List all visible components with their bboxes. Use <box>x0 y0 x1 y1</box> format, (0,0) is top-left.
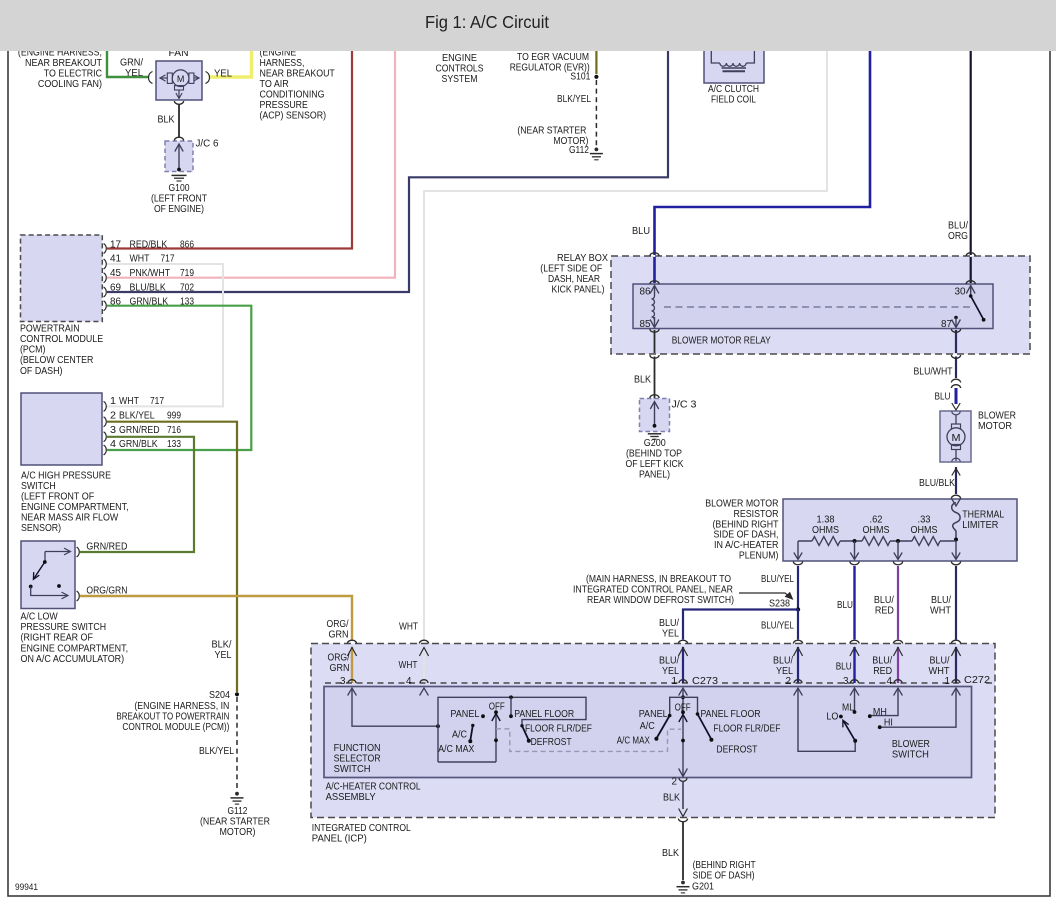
svg-text:(NEAR STARTER: (NEAR STARTER <box>200 817 270 828</box>
svg-text:ORG/GRN: ORG/GRN <box>86 586 127 597</box>
svg-text:TO ELECTRIC: TO ELECTRIC <box>44 69 102 80</box>
svg-text:Fig 1: A/C Circuit: Fig 1: A/C Circuit <box>425 12 549 32</box>
relay coil pin 86 <box>650 253 659 256</box>
svg-text:G100: G100 <box>169 183 190 194</box>
wire BLK/YEL 999 pin 2 to S204 <box>107 422 237 692</box>
svg-text:RED/BLK: RED/BLK <box>130 239 168 250</box>
svg-text:BLU/: BLU/ <box>874 595 894 606</box>
svg-text:85: 85 <box>640 319 651 330</box>
svg-text:S101: S101 <box>570 72 590 83</box>
svg-text:SIDE OF DASH,: SIDE OF DASH, <box>714 530 779 541</box>
svg-text:BLU/: BLU/ <box>659 656 679 667</box>
svg-text:GRN/: GRN/ <box>120 58 143 69</box>
A/C clutch field coil symbol <box>711 51 720 63</box>
svg-text:(RIGHT REAR OF: (RIGHT REAR OF <box>21 633 93 644</box>
relay box dashed boundary <box>611 256 1030 354</box>
svg-text:BLU: BLU <box>935 392 951 403</box>
svg-text:OFF: OFF <box>675 703 691 714</box>
ground G112 lower <box>235 792 239 796</box>
svg-text:ON A/C ACCUMULATOR): ON A/C ACCUMULATOR) <box>21 654 125 665</box>
svg-text:PANEL (ICP): PANEL (ICP) <box>312 834 367 845</box>
node resistor taps <box>853 539 857 543</box>
resistor box entry thermal limiter <box>951 495 960 498</box>
svg-text:SENSOR): SENSOR) <box>21 523 61 534</box>
relay coil <box>652 296 655 320</box>
svg-text:(LEFT FRONT OF: (LEFT FRONT OF <box>21 492 94 503</box>
svg-text:NEAR BREAKOUT: NEAR BREAKOUT <box>25 58 102 69</box>
left wafer bottom rail <box>438 761 496 763</box>
node J/C6 ground dot <box>177 168 181 172</box>
svg-text:YEL: YEL <box>214 69 232 80</box>
svg-text:RESISTOR: RESISTOR <box>734 509 779 520</box>
svg-text:87: 87 <box>941 319 952 330</box>
wire WHT to ICP pin 4 <box>424 46 827 640</box>
svg-text:.62: .62 <box>870 515 883 526</box>
svg-text:PANEL FLOOR: PANEL FLOOR <box>701 709 761 720</box>
wire PNK/WHT 719 PCM pin 45 <box>107 46 395 278</box>
fan motor symbol <box>160 77 168 79</box>
svg-text:SWITCH: SWITCH <box>892 750 929 761</box>
svg-text:FIELD COIL: FIELD COIL <box>711 95 756 106</box>
svg-text:WHT: WHT <box>399 622 418 633</box>
svg-text:CONTROLS: CONTROLS <box>436 64 484 75</box>
svg-text:OF DASH): OF DASH) <box>20 366 63 377</box>
wire BLK relay 85 to J/C 3 <box>654 357 656 399</box>
svg-text:PANEL: PANEL <box>639 709 668 720</box>
svg-text:69: 69 <box>110 282 121 293</box>
svg-text:BLOWER MOTOR: BLOWER MOTOR <box>705 499 778 510</box>
svg-text:SWITCH: SWITCH <box>21 481 56 492</box>
svg-text:COOLING FAN): COOLING FAN) <box>38 79 102 90</box>
ICP integrated control panel dashed boundary <box>311 644 995 818</box>
node left wafer junction <box>436 724 440 728</box>
svg-text:1: 1 <box>945 676 951 687</box>
connector C273 dashed line <box>325 682 688 684</box>
fan box <box>156 61 202 100</box>
svg-text:CONTROL MODULE (PCM)): CONTROL MODULE (PCM)) <box>122 722 229 733</box>
svg-text:HARNESS,: HARNESS, <box>260 58 305 69</box>
svg-text:A/C: A/C <box>452 730 467 741</box>
svg-text:45: 45 <box>110 268 121 279</box>
ground G112 near starter motor <box>595 148 599 152</box>
A/C high pressure switch box <box>21 393 102 465</box>
svg-text:MOTOR: MOTOR <box>978 421 1012 432</box>
right wafer A/C MAX lever <box>668 714 672 718</box>
wire BLK/YEL at S101 <box>595 46 597 74</box>
svg-text:PANEL): PANEL) <box>639 470 670 481</box>
blower motor relay inner box <box>633 284 993 329</box>
svg-text:A/C CLUTCH: A/C CLUTCH <box>708 84 759 95</box>
svg-text:BLU: BLU <box>836 662 852 673</box>
left wafer A/C lever <box>471 724 474 727</box>
svg-text:OFF: OFF <box>489 702 505 713</box>
wire WHT 717 PCM pin 41 to high pressure switch pin 1 <box>107 264 223 406</box>
svg-text:G200: G200 <box>644 438 666 449</box>
wire dashed BLK/YEL S101 to G112 <box>595 80 597 146</box>
contact PANEL left wafer <box>481 714 485 718</box>
node thermal limiter junction <box>954 538 958 542</box>
svg-text:PRESSURE SWITCH: PRESSURE SWITCH <box>21 622 107 633</box>
svg-text:CONTROL MODULE: CONTROL MODULE <box>20 334 103 345</box>
svg-text:SELECTOR: SELECTOR <box>334 754 381 765</box>
node right wafer junction <box>681 695 685 699</box>
svg-text:A/C LOW: A/C LOW <box>21 612 59 623</box>
svg-text:WHT: WHT <box>930 606 951 617</box>
svg-text:BLK/YEL: BLK/YEL <box>557 94 591 105</box>
svg-text:4: 4 <box>887 676 893 687</box>
svg-text:TO AIR: TO AIR <box>260 79 289 90</box>
svg-text:YEL: YEL <box>662 629 679 640</box>
svg-text:DASH, NEAR: DASH, NEAR <box>548 274 600 285</box>
A/C high pressure switch pin connectors <box>104 401 107 411</box>
node S101 <box>594 75 598 79</box>
svg-text:(MAIN HARNESS, IN BREAKOUT TO: (MAIN HARNESS, IN BREAKOUT TO <box>586 574 731 585</box>
svg-text:(LEFT SIDE OF: (LEFT SIDE OF <box>540 264 602 275</box>
wire BLU/WHT resistor to ICP pin 1 C272 <box>955 566 957 640</box>
wire BLU to relay pin 86 <box>655 46 871 255</box>
svg-text:133: 133 <box>180 297 194 308</box>
svg-text:(BEHIND RIGHT: (BEHIND RIGHT <box>713 519 779 530</box>
svg-text:WHT: WHT <box>399 660 418 671</box>
ground G201 <box>681 881 685 885</box>
thermal limiter symbol <box>952 503 960 540</box>
relay switch blade <box>971 296 984 319</box>
svg-text:BLK/: BLK/ <box>212 640 232 651</box>
A/C low pressure switch internals <box>45 551 69 553</box>
wire RED/BLK 866 PCM pin 17 <box>107 46 352 249</box>
svg-text:DEFROST: DEFROST <box>716 745 757 756</box>
svg-text:BLU/: BLU/ <box>948 221 968 232</box>
svg-text:A/C-HEATER CONTROL: A/C-HEATER CONTROL <box>326 782 421 793</box>
svg-text:17: 17 <box>110 239 121 250</box>
svg-text:BLU/: BLU/ <box>931 595 951 606</box>
contact LO <box>839 715 843 719</box>
svg-text:SYSTEM: SYSTEM <box>442 74 478 85</box>
svg-text:1.38: 1.38 <box>817 515 835 526</box>
svg-text:(ACP) SENSOR): (ACP) SENSOR) <box>260 111 327 122</box>
blower motor box <box>940 411 971 462</box>
svg-text:BLU/: BLU/ <box>773 656 793 667</box>
inline connector arcs BLU/WHT-BLU <box>951 379 960 382</box>
wire dashed BLK/YEL S204 to G112 <box>236 697 238 791</box>
svg-text:G112: G112 <box>569 145 589 156</box>
node panel-floor tap <box>509 695 513 699</box>
svg-text:NEAR MASS AIR FLOW: NEAR MASS AIR FLOW <box>21 513 119 524</box>
svg-text:NEAR BREAKOUT: NEAR BREAKOUT <box>260 69 335 80</box>
svg-text:999: 999 <box>167 410 181 421</box>
svg-text:ML: ML <box>842 703 854 714</box>
svg-text:FUNCTION: FUNCTION <box>334 743 381 754</box>
svg-text:GRN/RED: GRN/RED <box>86 542 127 553</box>
svg-text:BLU/BLK: BLU/BLK <box>130 282 166 293</box>
blower motor entry <box>952 403 960 410</box>
svg-text:A/C MAX: A/C MAX <box>438 744 474 755</box>
svg-text:BLK/YEL: BLK/YEL <box>199 746 234 757</box>
wire ORG/GRN low pressure switch to ICP pin 3 <box>80 596 352 640</box>
svg-text:A/C MAX: A/C MAX <box>617 736 650 747</box>
inner assembly pin arrows <box>348 688 357 696</box>
J/C 3 internal wire <box>654 402 656 426</box>
svg-text:702: 702 <box>180 282 194 293</box>
right wafer defrost lever <box>696 712 700 716</box>
resistor drop pins <box>797 541 799 559</box>
wire BLK fan to J/C 6 <box>174 101 183 104</box>
svg-text:HI: HI <box>884 718 893 729</box>
mechanical linkage dashed <box>496 729 681 752</box>
ground G100 bars <box>172 174 187 176</box>
title bar <box>0 0 1056 51</box>
svg-text:BLK: BLK <box>634 375 651 386</box>
wire BLU/ORG inside relay box to pin 30 <box>970 257 972 283</box>
wire BLU/YEL S238 branch to ICP pin 1 C273 <box>683 610 798 640</box>
J/C 3 entry cup <box>650 395 659 398</box>
svg-text:(NEAR STARTER: (NEAR STARTER <box>517 126 586 137</box>
junction box J/C 3 <box>640 399 670 432</box>
contact OFF right wafer <box>681 710 685 714</box>
wire BLU resistor to ICP pin 3 <box>853 566 855 640</box>
svg-text:C273: C273 <box>692 676 718 687</box>
harness callout arrow to S238 <box>739 593 792 599</box>
svg-text:(ENGINE HARNESS, IN: (ENGINE HARNESS, IN <box>134 701 229 712</box>
left wafer defrost lever <box>520 724 523 727</box>
svg-text:A/C HIGH PRESSURE: A/C HIGH PRESSURE <box>21 471 111 482</box>
svg-text:ENGINE: ENGINE <box>442 53 477 64</box>
svg-text:DEFROST: DEFROST <box>531 737 572 748</box>
svg-text:LO: LO <box>826 712 838 723</box>
ICP top band entry arrows <box>347 648 356 657</box>
wire BLU/YEL S238 down to ICP pin 2 <box>797 610 799 640</box>
A/C low pressure switch pin connectors <box>77 547 80 557</box>
svg-text:BLU/WHT: BLU/WHT <box>914 367 953 378</box>
wire BLU/WHT pin 87 inside relay box <box>955 330 957 353</box>
blower switch pin 2 path <box>798 688 855 751</box>
svg-text:SIDE OF DASH): SIDE OF DASH) <box>693 871 755 882</box>
svg-text:BLU/: BLU/ <box>872 656 892 667</box>
svg-text:3: 3 <box>110 425 116 436</box>
svg-text:866: 866 <box>180 239 194 250</box>
wire BLU/RED resistor to ICP pin 4 <box>897 566 899 640</box>
inner assembly pin cups <box>348 680 356 683</box>
function selector right wafer wiring <box>682 688 684 775</box>
svg-text:YEL: YEL <box>125 68 143 79</box>
svg-text:CONDITIONING: CONDITIONING <box>260 90 325 101</box>
svg-text:BLU/: BLU/ <box>930 656 950 667</box>
svg-text:OHMS: OHMS <box>911 525 938 536</box>
fan inline connector left <box>149 72 153 84</box>
svg-text:BLU/YEL: BLU/YEL <box>761 621 794 632</box>
svg-text:719: 719 <box>180 268 194 279</box>
svg-text:86: 86 <box>110 297 121 308</box>
ICP top band wires <box>351 647 353 683</box>
svg-text:J/C 6: J/C 6 <box>196 139 219 150</box>
svg-text:THERMAL: THERMAL <box>962 510 1004 521</box>
resistor network <box>798 540 812 542</box>
relay coil pin 85 <box>654 317 656 327</box>
svg-text:(BEHIND TOP: (BEHIND TOP <box>626 449 682 460</box>
svg-text:3: 3 <box>843 676 849 687</box>
svg-text:1: 1 <box>110 396 116 407</box>
svg-text:BLOWER: BLOWER <box>978 411 1016 422</box>
contact MH pin 4 <box>871 688 898 716</box>
wire BLK pin 85 inside relay box <box>654 330 656 353</box>
svg-text:ORG/: ORG/ <box>327 619 349 630</box>
svg-text:M: M <box>952 432 961 444</box>
wire BLU/BLK motor to resistor box <box>955 467 957 494</box>
svg-text:(LEFT FRONT: (LEFT FRONT <box>151 194 207 205</box>
ICP boundary entry cups <box>347 640 356 643</box>
svg-text:ORG/: ORG/ <box>328 653 350 664</box>
svg-text:GRN/BLK: GRN/BLK <box>130 297 169 308</box>
svg-text:2: 2 <box>110 410 116 421</box>
svg-text:OF LEFT KICK: OF LEFT KICK <box>626 459 684 470</box>
svg-text:REAR WINDOW DEFROST SWITCH): REAR WINDOW DEFROST SWITCH) <box>587 595 734 606</box>
svg-text:BLU: BLU <box>837 600 853 611</box>
svg-text:99941: 99941 <box>15 882 38 893</box>
junction box J/C 6 <box>165 141 193 172</box>
wire BLU inside relay box to pin 86 <box>653 257 656 283</box>
svg-text:BLK/YEL: BLK/YEL <box>119 410 155 421</box>
PCM box dashed <box>21 235 103 322</box>
svg-text:4: 4 <box>406 676 412 687</box>
svg-text:ENGINE COMPARTMENT,: ENGINE COMPARTMENT, <box>21 502 129 513</box>
svg-text:GRN: GRN <box>329 630 349 641</box>
svg-text:41: 41 <box>110 254 121 265</box>
svg-text:717: 717 <box>150 396 164 407</box>
svg-text:S204: S204 <box>209 690 230 701</box>
svg-text:ORG: ORG <box>948 231 968 242</box>
svg-text:TO EGR VACUUM: TO EGR VACUUM <box>517 52 589 63</box>
svg-text:LIMITER: LIMITER <box>962 520 998 531</box>
svg-text:BLU/YEL: BLU/YEL <box>761 574 794 585</box>
svg-text:4: 4 <box>110 439 116 450</box>
wire BLU/WHT relay 87 to connector <box>955 357 957 379</box>
relay switch pin 87 <box>954 316 958 320</box>
svg-text:716: 716 <box>167 425 181 436</box>
svg-text:M: M <box>177 74 185 84</box>
svg-text:OHMS: OHMS <box>812 525 839 536</box>
svg-text:BLU/BLK: BLU/BLK <box>919 478 955 489</box>
wire GRN/BLK 133 PCM pin 86 to high pressure switch pin 4 <box>107 306 251 450</box>
svg-text:FLOOR FLR/DEF: FLOOR FLR/DEF <box>713 724 780 735</box>
wire BLU/ORG to relay pin 30 <box>970 46 972 255</box>
ground G200 bars <box>648 433 661 435</box>
contact ML pin 3 <box>854 688 856 712</box>
svg-text:OF ENGINE): OF ENGINE) <box>154 204 204 215</box>
A/C low pressure switch box <box>21 541 75 609</box>
contact HI pin 1 <box>881 688 956 727</box>
svg-text:PNK/WHT: PNK/WHT <box>130 268 171 279</box>
svg-text:BLK: BLK <box>663 793 680 804</box>
svg-text:133: 133 <box>167 439 181 450</box>
svg-text:INTEGRATED CONTROL: INTEGRATED CONTROL <box>312 823 411 834</box>
left wafer wiper <box>495 715 497 763</box>
function selector left wafer wiring <box>352 688 438 726</box>
svg-text:G112: G112 <box>228 806 248 817</box>
svg-text:BLU/: BLU/ <box>659 618 679 629</box>
svg-text:2: 2 <box>672 777 678 788</box>
svg-text:PANEL FLOOR: PANEL FLOOR <box>514 709 574 720</box>
svg-text:BLK: BLK <box>662 848 679 859</box>
svg-text:RED: RED <box>875 606 894 617</box>
svg-text:BLU: BLU <box>632 226 650 237</box>
relay internal dashed link <box>664 306 971 308</box>
wire GRN/YEL to fan <box>107 46 149 77</box>
svg-text:BREAKOUT TO POWERTRAIN: BREAKOUT TO POWERTRAIN <box>116 712 229 723</box>
wire BLU to blower motor <box>955 388 958 404</box>
svg-text:BLOWER MOTOR RELAY: BLOWER MOTOR RELAY <box>672 336 771 347</box>
svg-text:YEL: YEL <box>215 650 232 661</box>
svg-text:MOTOR): MOTOR) <box>220 827 256 838</box>
svg-text:BLOWER: BLOWER <box>892 739 930 750</box>
svg-text:ENGINE COMPARTMENT,: ENGINE COMPARTMENT, <box>21 643 129 654</box>
svg-text:A/C: A/C <box>640 721 655 732</box>
svg-text:BLK: BLK <box>158 115 175 126</box>
relay switch pin 30 <box>966 253 975 256</box>
svg-text:POWERTRAIN: POWERTRAIN <box>20 323 80 334</box>
svg-text:GRN/BLK: GRN/BLK <box>119 439 158 450</box>
node S204 <box>235 692 239 696</box>
svg-text:KICK PANEL): KICK PANEL) <box>552 285 605 296</box>
svg-text:PRESSURE: PRESSURE <box>260 100 309 111</box>
svg-text:PANEL: PANEL <box>450 709 479 720</box>
svg-text:(BEHIND RIGHT: (BEHIND RIGHT <box>693 860 756 871</box>
svg-text:RELAY BOX: RELAY BOX <box>557 253 608 264</box>
A/C-heater control assembly inner box <box>324 687 972 778</box>
svg-text:IN A/C-HEATER: IN A/C-HEATER <box>714 540 779 551</box>
A/C clutch field coil box <box>704 48 764 83</box>
fan inline connector right <box>206 72 210 84</box>
wire BLU/YEL resistor to S238 <box>797 566 799 610</box>
svg-text:717: 717 <box>161 254 175 265</box>
wire GRN/RED 716 pin 3 to low pressure switch <box>80 437 194 552</box>
svg-text:GRN: GRN <box>330 663 350 674</box>
svg-text:.33: .33 <box>918 515 931 526</box>
blower motor symbol <box>955 415 957 424</box>
svg-text:SWITCH: SWITCH <box>334 764 371 775</box>
svg-text:1: 1 <box>672 676 678 687</box>
svg-text:OHMS: OHMS <box>863 525 890 536</box>
blower switch lever <box>853 739 857 743</box>
svg-text:3: 3 <box>340 676 346 687</box>
svg-text:PLENUM): PLENUM) <box>739 551 779 562</box>
wire BLU/BLK 702 PCM pin 69 <box>107 46 668 292</box>
svg-text:WHT: WHT <box>119 396 139 407</box>
svg-text:MH: MH <box>873 707 887 718</box>
svg-text:ASSEMBLY: ASSEMBLY <box>326 792 376 803</box>
svg-text:GRN/RED: GRN/RED <box>119 425 160 436</box>
node S238 <box>796 607 800 611</box>
svg-text:86: 86 <box>640 287 651 298</box>
svg-text:C272: C272 <box>964 675 990 686</box>
svg-text:WHT: WHT <box>130 254 150 265</box>
wire YEL from fan <box>210 46 252 77</box>
svg-text:J/C 3: J/C 3 <box>672 400 697 411</box>
PCM pin connectors <box>104 244 107 254</box>
svg-text:(BELOW CENTER: (BELOW CENTER <box>20 355 93 366</box>
svg-text:(PCM): (PCM) <box>20 345 45 356</box>
svg-text:FLOOR FLR/DEF: FLOOR FLR/DEF <box>525 724 592 735</box>
contact OFF left wafer <box>494 710 498 714</box>
wire BLK ICP pin 2 to G201 <box>679 769 688 777</box>
svg-text:30: 30 <box>955 287 966 298</box>
svg-text:S238: S238 <box>769 599 790 610</box>
blower motor resistor box <box>783 499 1017 561</box>
connector C272 dashed line <box>722 682 961 684</box>
svg-text:G201: G201 <box>692 882 714 893</box>
svg-text:2: 2 <box>786 676 792 687</box>
svg-text:INTEGRATED CONTROL PANEL, NEAR: INTEGRATED CONTROL PANEL, NEAR <box>573 585 733 596</box>
